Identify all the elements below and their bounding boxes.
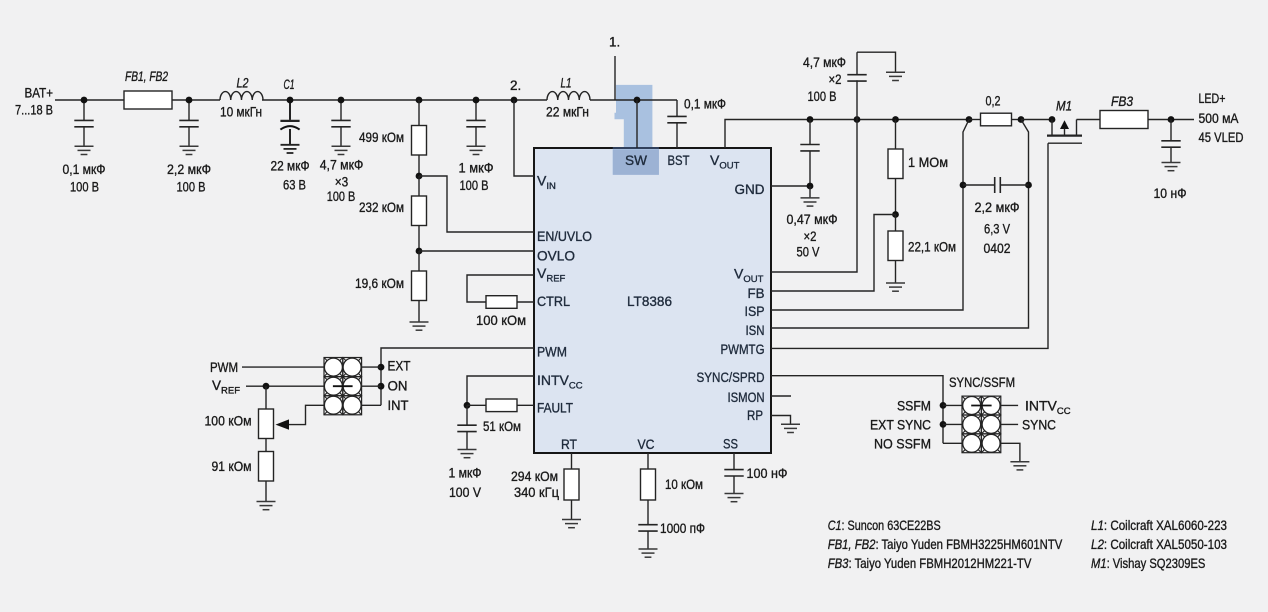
svg-text:1 мкФ: 1 мкФ	[449, 465, 482, 481]
resistor 19,6 kOhm	[412, 271, 427, 301]
pin label INTVCC	[537, 372, 583, 392]
svg-text:SYNC/SPRD: SYNC/SPRD	[697, 369, 765, 385]
capacitor 4.7uF x3 input	[331, 100, 350, 146]
label 100 В 1uF	[460, 177, 489, 193]
svg-text:FB: FB	[748, 285, 765, 301]
svg-text:FB1, FB2: Taiyo Yuden FBMH3225: FB1, FB2: Taiyo Yuden FBMH3225HM601NTV	[828, 536, 1063, 552]
node dot rail divider	[416, 97, 423, 104]
svg-text:ON: ON	[388, 378, 408, 394]
node dot vout 810	[807, 116, 814, 123]
label 63 В	[283, 177, 306, 193]
callout highlight digit 1 over SW node	[613, 85, 659, 175]
svg-text:1000 пФ: 1000 пФ	[660, 520, 705, 536]
label 100 B top	[808, 88, 837, 104]
node dot vout 895	[892, 116, 899, 123]
wire VREF-CTRL loop	[467, 275, 534, 302]
svg-text:SS: SS	[723, 436, 738, 452]
svg-text:NO SSFM: NO SSFM	[874, 436, 931, 452]
svg-text:PWMTG: PWMTG	[721, 341, 765, 357]
resistor 0,2 sense	[981, 113, 1012, 126]
pin label BST	[668, 152, 690, 168]
node dot SW	[634, 97, 641, 104]
svg-text:100 В: 100 В	[177, 178, 206, 194]
label 4,7 мкФ top	[803, 54, 846, 70]
pin label VREF left	[537, 265, 566, 285]
capacitor 1uF INTVCC	[457, 405, 476, 449]
label LED+	[1199, 91, 1226, 106]
svg-text:91 кОм: 91 кОм	[212, 458, 252, 474]
pin label SS	[723, 436, 738, 452]
wire EN/UVLO	[419, 176, 534, 232]
label 2,2 мкФ sense	[975, 199, 1020, 215]
label 294 кОм	[511, 468, 558, 484]
capacitor C1 22uF polarized	[280, 100, 299, 145]
svg-text:50 V: 50 V	[797, 244, 821, 260]
label 22,1 кОм	[908, 239, 956, 255]
wire SW pin	[636, 100, 638, 148]
pin label RT	[561, 436, 577, 452]
wire OVLO	[419, 250, 534, 252]
wire VIN	[514, 100, 534, 176]
label x2 top	[829, 71, 842, 87]
svg-text:1.: 1.	[609, 35, 620, 50]
node dot rail c4	[338, 97, 345, 104]
ground 10nF	[1162, 163, 1181, 171]
parts note M1	[1091, 555, 1205, 571]
label x2 047	[804, 228, 817, 244]
svg-text:L1: Coilcraft XAL6060-223: L1: Coilcraft XAL6060-223	[1091, 517, 1227, 533]
node dot sense left	[966, 116, 973, 123]
wire BAT+ input rail	[55, 99, 124, 101]
pin label PWM	[537, 344, 567, 360]
wire to 51k	[467, 404, 486, 406]
svg-text:0402: 0402	[984, 240, 1011, 256]
ferrite bead FB3	[1100, 111, 1148, 129]
pin label VOUT top	[710, 152, 740, 172]
svg-text:4,7 мкФ: 4,7 мкФ	[803, 54, 846, 70]
svg-text:INT: INT	[388, 397, 409, 413]
svg-text:BAT+: BAT+	[25, 86, 54, 101]
label ON	[388, 378, 408, 394]
wire 51k to FAULT	[517, 404, 534, 406]
svg-text:51 кОм: 51 кОм	[483, 418, 521, 434]
pin label EN/UVLO	[537, 228, 592, 244]
node dot ON	[378, 383, 385, 390]
svg-text:0,1 мкФ: 0,1 мкФ	[63, 161, 106, 177]
svg-text:0,47 мкФ: 0,47 мкФ	[787, 211, 838, 227]
label 232 кОм	[359, 199, 404, 215]
wire stub ON	[362, 385, 382, 387]
node dot divider EN	[416, 173, 423, 180]
svg-text:LED+: LED+	[1199, 91, 1226, 106]
label 340 кГц	[514, 484, 559, 500]
ground SYNC jumper	[1010, 462, 1029, 470]
node dot kelvin right	[1025, 182, 1032, 189]
wire RT gnd	[571, 500, 573, 520]
pin label PWMTG	[721, 341, 765, 357]
svg-text:VC: VC	[638, 436, 655, 452]
svg-text:ISN: ISN	[746, 322, 765, 338]
node dot rail c2	[186, 97, 193, 104]
label 100 В c2	[177, 178, 206, 194]
svg-text:FB3: Taiyo Yuden FBMH2012HM221: FB3: Taiyo Yuden FBMH2012HM221-TV	[828, 555, 1032, 571]
ground RT	[562, 520, 581, 528]
wire pot to 91k	[265, 439, 267, 452]
svg-text:SYNC/SSFM: SYNC/SSFM	[949, 374, 1015, 390]
node dot INTVCC	[464, 402, 471, 409]
label VREF ext	[212, 378, 240, 397]
node dot VREF ext	[263, 383, 270, 390]
svg-text:×3: ×3	[335, 173, 349, 189]
parts note FB3	[828, 555, 1032, 571]
svg-text:100 кОм: 100 кОм	[476, 312, 526, 328]
ground 4.7uF top	[886, 72, 905, 80]
node dot SSFM	[940, 402, 947, 409]
svg-text:OVLO: OVLO	[537, 248, 575, 264]
pin label VOUT right	[734, 266, 764, 286]
ferrite bead FB1 FB2	[124, 91, 172, 109]
label C1	[284, 77, 295, 92]
label INTVCC right	[1025, 398, 1071, 418]
label 100 В c1	[70, 178, 99, 194]
wire VC to cap	[647, 500, 649, 525]
resistor 100 kOhm CTRL	[486, 296, 517, 309]
pot wiper arrow	[288, 405, 324, 424]
wire FB	[771, 215, 896, 292]
label 499 кОм	[359, 129, 404, 145]
label L2	[237, 75, 249, 90]
wire rail to R499k	[418, 100, 420, 126]
ground 4.7uF x3	[332, 146, 351, 154]
svg-text:0,1 мкФ: 0,1 мкФ	[684, 96, 726, 112]
wire rail into 0,2	[969, 119, 981, 121]
op-amp U1 LT8386 IC body	[534, 148, 771, 453]
transistor M1	[1047, 120, 1082, 144]
ground 0.1uF	[75, 146, 94, 154]
wire rail L1 to BST cap	[590, 99, 677, 101]
capacitor 1uF input	[466, 100, 485, 146]
parts note L2	[1091, 536, 1227, 552]
inductor L1	[547, 92, 590, 100]
inductor L2	[220, 92, 263, 100]
ground SS	[725, 494, 744, 502]
wire stub SSFM	[943, 404, 962, 406]
svg-text:L1: L1	[561, 75, 572, 90]
wire 0.47 gnd stub	[809, 186, 811, 198]
wire PWMTG gate	[771, 143, 1048, 348]
resistor 10 kOhm VC	[641, 469, 656, 500]
wire node to R22.1k	[895, 215, 897, 232]
svg-text:FB1, FB2: FB1, FB2	[125, 69, 168, 84]
wire 0,2 to right dot	[1011, 119, 1021, 121]
label INT	[388, 397, 409, 413]
label 10 кОм	[665, 476, 703, 492]
wire ISMON stub	[771, 395, 791, 397]
wire FB3 to LED	[1148, 119, 1194, 121]
svg-text:100 В: 100 В	[327, 188, 356, 204]
wire NO SSFM gnd	[1001, 443, 1020, 461]
resistor 294 kOhm RT	[564, 469, 579, 500]
capacitor 2.2uF input	[179, 100, 198, 146]
ground divider	[410, 322, 429, 330]
wire GND pin	[771, 185, 810, 187]
svg-text:63 В: 63 В	[283, 177, 306, 193]
pin label ISP	[745, 303, 765, 319]
svg-text:340 кГц: 340 кГц	[514, 484, 559, 500]
pin label CTRL	[537, 293, 570, 309]
svg-text:L2: Coilcraft XAL5050-103: L2: Coilcraft XAL5050-103	[1091, 536, 1227, 552]
label 6,3 V	[984, 221, 1011, 237]
svg-text:10 кОм: 10 кОм	[665, 476, 703, 492]
wire stub NO SSFM	[943, 442, 962, 444]
wire R22.1k gnd	[895, 261, 897, 284]
wire node2 to R19.6k	[418, 251, 420, 271]
wire stub INT	[362, 404, 382, 406]
label x3	[335, 173, 349, 189]
node dot GND 0.47uF	[807, 183, 814, 190]
svg-text:4,7 мкФ: 4,7 мкФ	[320, 157, 364, 173]
label 1000 пФ	[660, 520, 705, 536]
svg-text:2.: 2.	[510, 78, 521, 93]
svg-text:×2: ×2	[804, 228, 817, 244]
label SSFM	[897, 398, 931, 414]
node dot FB divider	[892, 211, 899, 218]
wire SYNC/SPRD	[771, 376, 943, 444]
svg-text:19,6 кОм: 19,6 кОм	[355, 275, 404, 291]
ground 1uF input	[467, 146, 486, 154]
pin label VIN	[537, 173, 556, 193]
wire VREF to pot	[265, 386, 267, 409]
capacitor 0.1uF input	[74, 100, 93, 146]
node dot BAT rail c1	[81, 97, 88, 104]
capacitor 1000pF VC	[638, 525, 657, 549]
svg-text:2,2 мкФ: 2,2 мкФ	[975, 199, 1020, 215]
node dot kelvin left	[960, 182, 967, 189]
label NO SSFM	[874, 436, 931, 452]
ground 22.1k	[886, 283, 905, 291]
label 1 мкФ INTVCC	[449, 465, 482, 481]
parts note C1	[828, 517, 941, 533]
pot wiper arrowhead	[276, 419, 290, 429]
svg-text:ISP: ISP	[745, 303, 765, 319]
svg-text:C1: Suncon 63CE22BS: C1: Suncon 63CE22BS	[828, 517, 941, 533]
label 50 V	[797, 244, 821, 260]
svg-text:EXT: EXT	[388, 358, 411, 374]
wire kelvin left	[771, 120, 969, 311]
svg-text:6,3 V: 6,3 V	[984, 221, 1011, 237]
svg-text:45 VLED: 45 VLED	[1199, 130, 1244, 145]
svg-text:RP: RP	[747, 407, 763, 423]
wire M1 to FB3	[1077, 119, 1101, 121]
wire RP	[771, 416, 791, 425]
svg-text:EN/UVLO: EN/UVLO	[537, 228, 592, 244]
label SYNC/SSFM title	[949, 374, 1015, 390]
wire stub SYNC right	[1001, 423, 1018, 425]
node dot rail VIN	[511, 97, 518, 104]
node dot M1 source	[1049, 116, 1056, 123]
label FB1, FB2	[125, 69, 168, 84]
svg-text:SW: SW	[625, 152, 648, 168]
wire PWM ext	[242, 366, 324, 368]
wire rail L2 to L1	[262, 99, 547, 101]
svg-text:RT: RT	[561, 436, 577, 452]
wire VREF ext	[246, 385, 324, 387]
wire VOUT2	[771, 120, 857, 273]
svg-text:100 В: 100 В	[70, 178, 99, 194]
svg-text:CTRL: CTRL	[537, 293, 570, 309]
svg-text:22 мкГн: 22 мкГн	[546, 104, 589, 120]
node dot vout 857	[854, 116, 861, 123]
label 91 кОм	[212, 458, 252, 474]
resistor 22,1 kOhm	[888, 231, 903, 261]
svg-text:22,1 кОм: 22,1 кОм	[908, 239, 956, 255]
label 100 кОм pot	[205, 413, 252, 429]
wire stub EXT SYNC	[943, 423, 962, 425]
svg-text:100 В: 100 В	[460, 177, 489, 193]
capacitor 100nF SS	[724, 470, 743, 494]
svg-text:FB3: FB3	[1111, 94, 1133, 109]
pin label OVLO	[537, 248, 575, 264]
label LT8386	[627, 293, 672, 309]
pin label FB	[748, 285, 765, 301]
svg-text:BST: BST	[668, 152, 690, 168]
pin label ISMON	[728, 389, 765, 405]
capacitor 4.7uF x2 top	[847, 52, 866, 119]
capacitor 0.1uF BST	[667, 100, 686, 148]
wire R499k to node	[418, 155, 420, 176]
resistor 1 MOhm	[888, 149, 903, 179]
ground 1uF INTVCC	[458, 450, 477, 458]
resistor 91 kOhm	[259, 452, 274, 482]
label 1 МОм	[908, 154, 948, 170]
connector J2 SYNC jumper block	[962, 396, 1001, 453]
label 22 мкГн	[546, 104, 589, 120]
wire 91k gnd	[265, 481, 267, 502]
svg-text:7...18 В: 7...18 В	[15, 102, 53, 117]
wire sense to M1	[1021, 119, 1052, 121]
label 500 мА	[1199, 111, 1239, 126]
connector J1 PWM jumper block	[324, 358, 362, 415]
parts note FB1 FB2	[828, 536, 1063, 552]
label L1	[561, 75, 572, 90]
resistor 499 kOhm	[412, 126, 427, 156]
svg-text:10 мкГн: 10 мкГн	[220, 104, 262, 120]
wire VC	[647, 453, 649, 469]
label 0402	[984, 240, 1011, 256]
resistor 51 kOhm	[486, 399, 517, 412]
svg-text:1 МОм: 1 МОм	[908, 154, 948, 170]
svg-text:100 кОм: 100 кОм	[205, 413, 252, 429]
callout 2.	[510, 78, 521, 93]
wire RT	[571, 453, 573, 469]
svg-text:LT8386: LT8386	[627, 293, 672, 309]
label 0,1 мкФ BST	[684, 96, 726, 112]
svg-text:M1: Vishay SQ2309ES: M1: Vishay SQ2309ES	[1091, 555, 1205, 571]
label 0,1 мкФ	[63, 161, 106, 177]
ground 91k	[257, 502, 276, 510]
ground C1	[281, 145, 300, 153]
label 10 мкГн	[220, 104, 262, 120]
label FB3	[1111, 94, 1133, 109]
node dot divider OVLO	[416, 248, 423, 255]
label 100 B x3c	[327, 188, 356, 204]
pin label GND	[735, 181, 765, 197]
label 10 нФ	[1154, 185, 1187, 201]
ground RP	[781, 424, 800, 432]
wire rail FB to L2	[172, 99, 220, 101]
label 0,47 мкФ	[787, 211, 838, 227]
svg-text:C1: C1	[284, 77, 295, 92]
svg-text:100 нФ: 100 нФ	[747, 465, 788, 481]
svg-text:2,2 мкФ: 2,2 мкФ	[167, 161, 211, 177]
ground 2.2uF	[180, 146, 199, 154]
wire R1M to node	[895, 179, 897, 215]
pin label FAULT	[537, 400, 573, 416]
potentiometer 100 kOhm	[259, 409, 274, 439]
wire INTVCC	[467, 376, 534, 405]
label 4,7 мкФ x3a	[320, 157, 364, 173]
wire SS	[733, 453, 735, 470]
node dot EXT	[378, 364, 385, 371]
node dot EXT SYNC	[940, 421, 947, 428]
svg-text:10 нФ: 10 нФ	[1154, 185, 1187, 201]
svg-text:PWM: PWM	[537, 344, 567, 360]
label 7...18 B	[15, 102, 53, 117]
node dot rail C1	[287, 97, 294, 104]
label EXT SYNC	[870, 417, 931, 433]
svg-text:L2: L2	[237, 75, 249, 90]
label EXT	[388, 358, 411, 374]
pin label SYNC/SPRD	[697, 369, 765, 385]
wire vout to R1M	[895, 120, 897, 150]
pin label ISN	[746, 322, 765, 338]
wire kelvin right	[771, 120, 1029, 329]
svg-text:SSFM: SSFM	[897, 398, 931, 414]
label 1 мкФ in	[459, 160, 494, 176]
wire stub EXT	[362, 366, 382, 368]
ground VC	[639, 549, 658, 557]
label 51 кОм	[483, 418, 521, 434]
label 100 кОм CTRL	[476, 312, 526, 328]
label PWM ext	[210, 360, 238, 375]
svg-text:ISMON: ISMON	[728, 389, 765, 405]
svg-text:499 кОм: 499 кОм	[359, 129, 404, 145]
wire stub INTVCC right	[1001, 404, 1018, 406]
pin label RP	[747, 407, 763, 423]
svg-text:×2: ×2	[829, 71, 842, 87]
node dot LED	[1168, 116, 1175, 123]
label 2,2 мкФ	[167, 161, 211, 177]
label 22 мкФ	[271, 157, 310, 173]
label 19,6 кОм	[355, 275, 404, 291]
capacitor 2,2uF sense	[963, 177, 1029, 193]
svg-text:M1: M1	[1056, 98, 1072, 113]
label SYNC right	[1022, 417, 1056, 433]
parts note L1	[1091, 517, 1227, 533]
label 45 VLED	[1199, 130, 1244, 145]
svg-text:100 V: 100 V	[449, 484, 482, 500]
pin label SW	[625, 152, 648, 168]
callout 1. label	[609, 35, 620, 50]
wire R100k to CTRL	[517, 301, 534, 303]
callout 1 leader line	[614, 56, 616, 100]
wire VOUT pin riser	[725, 120, 969, 149]
label 0,2	[986, 92, 1001, 108]
node dot rail 1uF	[473, 97, 480, 104]
svg-text:100 В: 100 В	[808, 88, 837, 104]
svg-text:PWM: PWM	[210, 360, 238, 375]
capacitor 10nF out	[1161, 120, 1180, 163]
